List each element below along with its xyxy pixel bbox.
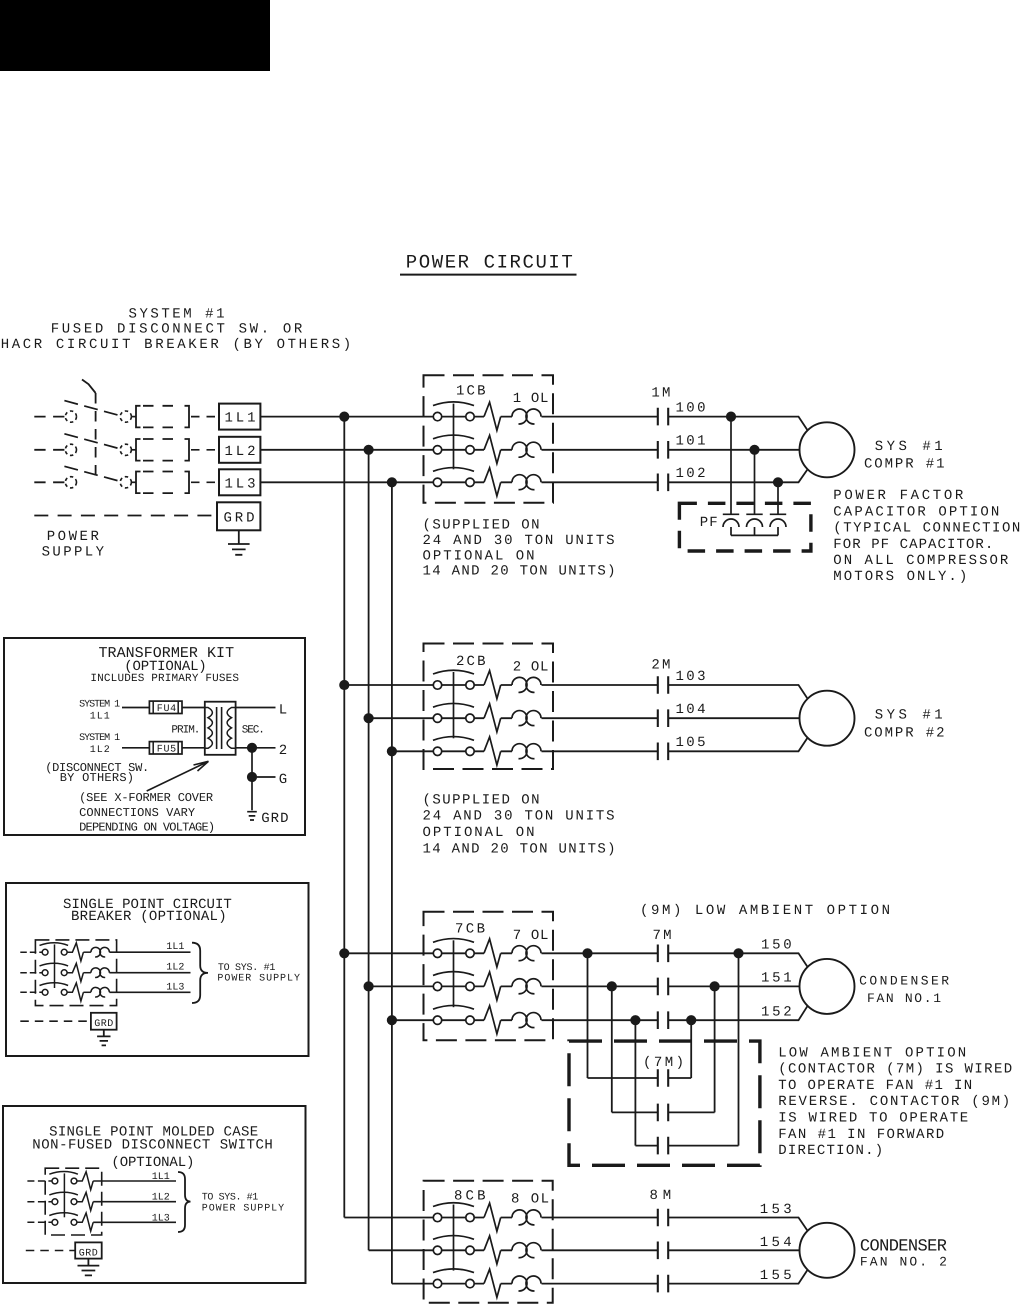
terminal circle xyxy=(65,411,76,422)
wire xyxy=(588,1077,658,1079)
breaker 8CB pole 1 with overload 8OL xyxy=(424,1203,554,1231)
svg-text:1CB: 1CB xyxy=(456,383,486,399)
svg-text:FUSED DISCONNECT SW. OR: FUSED DISCONNECT SW. OR xyxy=(51,322,303,338)
wires 150/151/152 to condenser fan 1 xyxy=(668,953,808,1020)
contactor 9M contact pole 1 xyxy=(658,1069,668,1087)
fused disconnect switch SW1 (by others) xyxy=(34,380,216,494)
svg-text:8 OL: 8 OL xyxy=(511,1191,549,1207)
wire to FU5 xyxy=(122,747,149,749)
breaker 2CB pole 3 with overload 2OL xyxy=(424,737,554,765)
wire FU5 to transformer xyxy=(182,747,205,749)
single point molded case enclosure xyxy=(3,1106,306,1283)
node xyxy=(364,981,374,991)
wire 1L1 to 1CB xyxy=(260,416,423,418)
contactor 1M contact pole 3 xyxy=(658,474,668,492)
breaker 1CB pole 3 with overload 1OL xyxy=(424,468,554,496)
breaker 7CB pole 1 with overload 7OL xyxy=(424,939,554,967)
wire bus to 2CB xyxy=(369,717,424,719)
wire bus to 7CB xyxy=(344,952,423,954)
contactor 8M contact pole 3 xyxy=(658,1275,668,1293)
svg-text:FAN #1 IN FORWARD: FAN #1 IN FORWARD xyxy=(778,1127,944,1143)
wire bus to 2CB xyxy=(344,684,423,686)
svg-text:7 OL: 7 OL xyxy=(513,928,549,944)
capacitor PF phase at x=754.5 xyxy=(746,450,762,515)
node G xyxy=(247,772,257,782)
brace xyxy=(192,943,208,1003)
single point breaker pole 1 xyxy=(20,951,42,953)
trip linkage xyxy=(63,1173,65,1217)
svg-text:GRD: GRD xyxy=(94,1019,113,1030)
svg-text:151: 151 xyxy=(761,971,792,987)
wire 7CB to 7M xyxy=(553,1019,658,1021)
svg-text:NON-FUSED DISCONNECT SWITCH: NON-FUSED DISCONNECT SWITCH xyxy=(32,1137,272,1153)
node bus B tap xyxy=(364,445,374,455)
svg-text:IS WIRED TO OPERATE: IS WIRED TO OPERATE xyxy=(778,1111,968,1127)
wire bus to 8CB xyxy=(344,1217,423,1219)
svg-text:G: G xyxy=(279,772,287,788)
transformer primary winding xyxy=(205,708,213,749)
contactor 2M contact pole 1 xyxy=(658,676,668,694)
fuse F2 xyxy=(136,439,141,461)
capacitor PF phase at x=778 xyxy=(770,482,786,514)
svg-text:BREAKER (OPTIONAL): BREAKER (OPTIONAL) xyxy=(71,909,227,925)
svg-text:2: 2 xyxy=(279,743,287,759)
capacitor PF phase at x=731 xyxy=(723,417,739,515)
wire 8CB to 8M xyxy=(553,1283,658,1285)
svg-text:(SUPPLIED ON: (SUPPLIED ON xyxy=(423,792,540,808)
svg-text:SYSTEM 1: SYSTEM 1 xyxy=(79,733,120,744)
wire 150 down to 9M xyxy=(587,953,589,1078)
svg-text:SEC.: SEC. xyxy=(242,724,265,736)
node 102 PF tap xyxy=(773,477,783,487)
circuit breaker 1CB enclosure xyxy=(424,375,554,502)
vertical bus phase B xyxy=(368,450,370,1251)
svg-text:OPTIONAL ON: OPTIONAL ON xyxy=(423,548,535,564)
breaker 2CB pole 2 with overload 2OL xyxy=(424,703,554,731)
breaker 8CB pole 2 with overload 8OL xyxy=(424,1236,554,1264)
svg-text:105: 105 xyxy=(676,735,706,751)
contactor 8M contact pole 1 xyxy=(658,1209,668,1227)
wire xyxy=(553,449,658,451)
wire 152 down to 9M xyxy=(634,1020,636,1145)
node 152 tap left xyxy=(630,1015,640,1025)
svg-text:GRD: GRD xyxy=(261,811,288,827)
svg-text:155: 155 xyxy=(760,1268,792,1284)
disconnect pole L1 xyxy=(34,416,64,418)
fuse FU4 xyxy=(149,701,182,713)
node 151 tap left xyxy=(607,981,617,991)
breaker 7CB pole 2 with overload 7OL xyxy=(424,972,554,1000)
svg-text:104: 104 xyxy=(676,702,706,718)
svg-text:POWER: POWER xyxy=(47,529,100,545)
terminal circle xyxy=(65,477,76,488)
svg-text:101: 101 xyxy=(676,434,706,450)
wire 9M up to 150 xyxy=(738,953,740,1145)
wire to FU4 xyxy=(122,707,149,709)
trip linkage xyxy=(54,944,56,988)
svg-text:CONNECTIONS VARY: CONNECTIONS VARY xyxy=(79,806,195,820)
wire 2 to ground xyxy=(251,748,253,811)
wire bus to 7CB xyxy=(392,1019,424,1021)
svg-text:FU4: FU4 xyxy=(157,704,176,715)
svg-text:POWER SUPPLY: POWER SUPPLY xyxy=(202,1204,284,1215)
node 150 tap left xyxy=(582,948,592,958)
svg-text:COMPR #1: COMPR #1 xyxy=(864,456,945,472)
disconnect pole L3 xyxy=(34,481,64,483)
svg-text:103: 103 xyxy=(676,669,706,685)
motor SYS #1 COMPR #2 xyxy=(800,691,855,746)
contactor 1M contact pole 2 xyxy=(658,441,668,459)
contactor 7M contact pole 1 xyxy=(658,945,668,963)
single point circuit breaker enclosure xyxy=(6,883,309,1056)
ground symbol (transformer) xyxy=(247,812,257,820)
svg-text:ON ALL COMPRESSOR: ON ALL COMPRESSOR xyxy=(833,553,1009,569)
svg-text:REVERSE. CONTACTOR (9M): REVERSE. CONTACTOR (9M) xyxy=(778,1094,1010,1110)
wire bus to 8CB xyxy=(392,1283,424,1285)
capacitor common bus xyxy=(731,534,778,536)
disconnect pole L2 xyxy=(34,449,64,451)
svg-text:1L1: 1L1 xyxy=(152,1172,170,1183)
contactor 2M contact pole 2 xyxy=(658,709,668,727)
svg-text:1L1: 1L1 xyxy=(166,942,184,953)
7CB trip linkage xyxy=(453,940,455,1007)
wire secondary 2 xyxy=(236,747,276,749)
svg-text:152: 152 xyxy=(761,1004,792,1020)
svg-text:L: L xyxy=(279,703,287,719)
breaker 2CB pole 1 with overload 2OL xyxy=(424,670,554,698)
node xyxy=(364,713,374,723)
single point breaker pole 2 xyxy=(20,972,42,974)
vertical bus phase A xyxy=(343,417,345,1218)
node xyxy=(339,948,349,958)
wire 2CB to 2M xyxy=(553,684,658,686)
svg-text:1L1: 1L1 xyxy=(90,711,110,722)
svg-text:1L3: 1L3 xyxy=(225,476,256,492)
circuit breaker 7CB enclosure xyxy=(424,912,554,1040)
molded case switch pole 1 xyxy=(27,1180,52,1182)
svg-text:FAN NO.1: FAN NO.1 xyxy=(867,991,941,1006)
wire 8CB to 8M xyxy=(553,1249,658,1251)
wire FU4 to transformer xyxy=(182,707,205,709)
contactor 7M contact pole 3 xyxy=(658,1011,668,1029)
wire 2CB to 2M xyxy=(553,750,658,752)
wire secondary L xyxy=(236,707,276,709)
node xyxy=(387,1015,397,1025)
circuit breaker 2CB enclosure xyxy=(424,644,554,770)
svg-text:OPTIONAL ON: OPTIONAL ON xyxy=(423,825,535,841)
switch linkage xyxy=(95,393,97,478)
vertical bus phase C xyxy=(391,482,393,1283)
PF capacitor option enclosure xyxy=(679,503,811,551)
transformer T1 xyxy=(205,702,236,755)
terminal box 1L1 xyxy=(219,404,260,430)
transformer kit enclosure xyxy=(4,638,305,835)
2CB trip linkage xyxy=(453,672,455,738)
svg-text:POWER CIRCUIT: POWER CIRCUIT xyxy=(406,252,573,274)
contactor 1M contact pole 1 xyxy=(658,408,668,426)
svg-text:CONDENSER: CONDENSER xyxy=(859,974,949,989)
wire 8CB to 8M xyxy=(553,1217,658,1219)
wire 7CB to 7M xyxy=(553,952,658,954)
wires 153/154/155 to condenser fan 2 xyxy=(668,1218,808,1284)
node 2 xyxy=(247,743,257,753)
svg-text:FAN NO. 2: FAN NO. 2 xyxy=(860,1255,947,1270)
ground wire dashed xyxy=(34,515,217,517)
fuse F3 xyxy=(136,472,141,494)
contactor 9M enclosure (low ambient) xyxy=(569,1041,760,1165)
svg-text:INCLUDES PRIMARY FUSES: INCLUDES PRIMARY FUSES xyxy=(90,673,239,685)
svg-text:PF: PF xyxy=(700,515,718,531)
wire xyxy=(635,1145,657,1147)
svg-text:150: 150 xyxy=(761,937,792,953)
fuse FU5 xyxy=(149,742,182,754)
terminal box 1L3 xyxy=(219,469,260,495)
svg-text:FOR PF CAPACITOR.: FOR PF CAPACITOR. xyxy=(833,537,993,553)
ground symbol xyxy=(78,1259,100,1276)
svg-text:24 AND 30 TON UNITS: 24 AND 30 TON UNITS xyxy=(423,809,615,825)
dashed ground wire xyxy=(26,1250,75,1252)
circuit breaker 8CB enclosure xyxy=(424,1181,553,1303)
contactor 9M contact pole 2 xyxy=(658,1104,668,1122)
motor CONDENSER FAN NO.1 xyxy=(800,959,855,1014)
svg-text:1L3: 1L3 xyxy=(152,1213,170,1224)
wire xyxy=(668,1111,714,1113)
wire 2CB to 2M xyxy=(553,717,658,719)
wire G xyxy=(257,776,276,778)
disconnect switch block enclosure xyxy=(45,1168,101,1235)
svg-text:COMPR #2: COMPR #2 xyxy=(864,725,945,741)
wire 151 down to 9M xyxy=(611,986,613,1112)
wires 100/101/102 to compressor motor 1 xyxy=(668,417,808,483)
svg-text:1L2: 1L2 xyxy=(166,963,184,974)
switch blade xyxy=(64,401,120,416)
wire xyxy=(553,416,658,418)
wire bus to 7CB xyxy=(369,985,424,987)
molded case switch pole 2 xyxy=(27,1201,52,1203)
svg-text:POWER SUPPLY: POWER SUPPLY xyxy=(217,973,300,984)
node 101 PF tap xyxy=(749,445,759,455)
svg-text:GRD: GRD xyxy=(224,510,255,526)
svg-text:2CB: 2CB xyxy=(456,654,486,670)
node 150 tap right xyxy=(733,948,743,958)
svg-text:154: 154 xyxy=(760,1235,792,1251)
svg-text:100: 100 xyxy=(676,400,706,416)
svg-text:1 OL: 1 OL xyxy=(513,391,549,407)
contactor 8M contact pole 2 xyxy=(658,1242,668,1260)
svg-text:FU5: FU5 xyxy=(157,745,176,756)
svg-text:102: 102 xyxy=(676,466,706,482)
svg-text:(SEE X-FORMER COVER: (SEE X-FORMER COVER xyxy=(79,791,213,805)
svg-text:153: 153 xyxy=(760,1202,792,1218)
svg-text:SYSTEM #1: SYSTEM #1 xyxy=(129,306,225,322)
arrow to transformer xyxy=(147,761,209,791)
wire xyxy=(553,481,658,483)
transformer core xyxy=(216,707,218,749)
wire bus to 2CB xyxy=(392,750,424,752)
svg-text:DIRECTION.): DIRECTION.) xyxy=(778,1143,883,1159)
wire 9M up to 152 xyxy=(690,1020,692,1078)
svg-text:1L1: 1L1 xyxy=(225,411,256,427)
terminal box GRD xyxy=(91,1013,117,1030)
svg-text:(OPTIONAL): (OPTIONAL) xyxy=(111,1155,194,1171)
svg-text:(TYPICAL CONNECTION: (TYPICAL CONNECTION xyxy=(833,521,1020,537)
contactor 2M contact pole 3 xyxy=(658,743,668,761)
dashed ground wire xyxy=(20,1020,91,1022)
motor SYS #1 COMPR #1 xyxy=(800,422,855,477)
molded case switch pole 3 xyxy=(27,1221,52,1223)
svg-text:7CB: 7CB xyxy=(455,921,485,937)
svg-text:(9M) LOW AMBIENT OPTION: (9M) LOW AMBIENT OPTION xyxy=(640,903,890,919)
wires 103/104/105 to compressor motor 2 xyxy=(668,685,808,751)
switch blade xyxy=(64,466,120,481)
breaker block enclosure xyxy=(35,940,116,1006)
svg-text:DEPENDING ON VOLTAGE): DEPENDING ON VOLTAGE) xyxy=(79,820,215,834)
switch handle xyxy=(82,380,96,394)
motor CONDENSER FAN NO. 2 xyxy=(800,1223,855,1278)
terminal box GRD xyxy=(75,1242,102,1258)
single point breaker pole 3 xyxy=(20,991,42,993)
fuse F1 xyxy=(136,406,141,428)
breaker 1CB pole 1 with overload 1OL xyxy=(424,402,554,430)
svg-text:1L2: 1L2 xyxy=(152,1193,170,1204)
node 100 PF tap xyxy=(726,412,736,422)
ground symbol xyxy=(97,1030,110,1046)
wire xyxy=(668,1077,691,1079)
redacted header block xyxy=(0,0,270,71)
svg-text:1L2: 1L2 xyxy=(90,745,110,756)
svg-text:(CONTACTOR (7M) IS WIRED: (CONTACTOR (7M) IS WIRED xyxy=(778,1062,1012,1078)
node bus A tap xyxy=(339,412,349,422)
terminal circle xyxy=(65,444,76,455)
1CB trip linkage xyxy=(453,404,455,470)
svg-text:24 AND 30 TON UNITS: 24 AND 30 TON UNITS xyxy=(423,533,615,549)
svg-text:1L3: 1L3 xyxy=(166,982,184,993)
breaker 1CB pole 2 with overload 1OL xyxy=(424,435,554,463)
node xyxy=(387,746,397,756)
svg-text:BY OTHERS): BY OTHERS) xyxy=(60,771,134,785)
8CB trip linkage xyxy=(453,1205,455,1271)
terminal box 1L2 xyxy=(219,437,260,463)
wire xyxy=(668,1145,738,1147)
brace xyxy=(178,1172,191,1232)
node bus C tap xyxy=(387,477,397,487)
contactor 9M contact pole 3 xyxy=(658,1137,668,1155)
ground symbol (power supply) xyxy=(228,530,250,555)
wire 7CB to 7M xyxy=(553,985,658,987)
svg-text:2 OL: 2 OL xyxy=(513,660,549,676)
node xyxy=(339,680,349,690)
svg-text:PRIM.: PRIM. xyxy=(171,724,200,736)
svg-text:1L2: 1L2 xyxy=(225,444,256,460)
wire xyxy=(612,1111,658,1113)
node 152 tap right xyxy=(686,1015,696,1025)
svg-text:GRD: GRD xyxy=(79,1248,98,1259)
wire 9M up to 151 xyxy=(714,986,716,1112)
transformer secondary winding xyxy=(227,708,236,749)
wire bus to 8CB xyxy=(369,1249,424,1251)
wire 1L2 to 1CB xyxy=(260,449,423,451)
breaker 7CB pole 3 with overload 7OL xyxy=(424,1005,554,1033)
wire 1L3 to 1CB xyxy=(260,481,423,483)
node 151 tap right xyxy=(710,981,720,991)
contactor 7M contact pole 2 xyxy=(658,978,668,996)
breaker 8CB pole 3 with overload 8OL xyxy=(424,1269,554,1297)
svg-text:TO SYS. #1: TO SYS. #1 xyxy=(202,1192,258,1203)
title underline xyxy=(400,274,577,276)
svg-text:SYSTEM 1: SYSTEM 1 xyxy=(79,699,120,710)
switch blade xyxy=(64,434,120,449)
svg-text:(SUPPLIED ON: (SUPPLIED ON xyxy=(423,518,540,534)
